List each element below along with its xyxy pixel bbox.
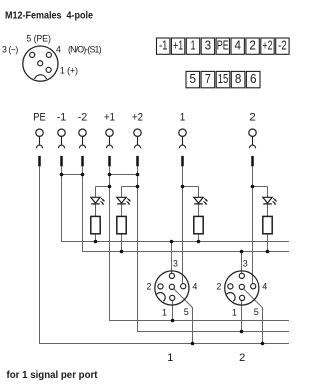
- wire terminal 2 to port2 pin 4: [252, 166, 254, 284]
- svg-text:6: 6: [250, 72, 257, 86]
- svg-text:(N/O)-(S1): (N/O)-(S1): [68, 45, 102, 55]
- svg-text:1: 1: [191, 39, 196, 53]
- svg-text:for 1 signal per port: for 1 signal per port: [7, 370, 99, 381]
- resistor R4: [263, 216, 272, 233]
- svg-text:4: 4: [262, 282, 267, 292]
- wire branch tap port2: [253, 186, 268, 188]
- resistor R3: [194, 216, 203, 233]
- svg-text:1: 1: [167, 352, 173, 364]
- face pin 3: [30, 52, 35, 57]
- wire -1 down + minus bus A: [62, 166, 290, 242]
- svg-text:5: 5: [254, 307, 259, 317]
- port 1 pin 4: [181, 284, 186, 289]
- svg-text:3: 3: [173, 259, 178, 269]
- svg-text:PE: PE: [217, 39, 229, 53]
- terminal -2 wire stub: [81, 156, 84, 166]
- port 2 keying notch: [227, 293, 236, 302]
- svg-text:4: 4: [192, 282, 197, 292]
- wire LED branch V1: [95, 187, 97, 242]
- svg-text:2: 2: [146, 282, 151, 292]
- terminal PE wire stub: [38, 156, 41, 166]
- LED V1: [91, 197, 104, 204]
- face pin 1: [46, 67, 51, 72]
- M12 female port 1 outline: [155, 271, 189, 305]
- LED V2: [117, 197, 130, 204]
- svg-text:M12-Females 4-pole: M12-Females 4-pole: [5, 10, 93, 21]
- svg-text:4: 4: [234, 39, 241, 53]
- svg-text:3: 3: [243, 259, 248, 269]
- wire port2 pin 3 to bus B: [241, 252, 243, 274]
- wire bridge +1 to +2: [110, 174, 138, 176]
- port 1 pin labels: [146, 259, 197, 318]
- wire port2 pin 1 to bus D: [241, 300, 243, 331]
- svg-text:2: 2: [249, 112, 256, 124]
- terminal 1 wire stub: [181, 156, 184, 166]
- svg-text:15: 15: [218, 72, 229, 86]
- face pin 5 (center): [38, 61, 43, 66]
- face keying notch: [35, 75, 47, 79]
- svg-text:1: 1: [232, 308, 237, 318]
- port 1 pin 1: [170, 295, 175, 300]
- resistor R2: [117, 216, 126, 233]
- LED V4: [263, 197, 276, 204]
- svg-text:5 (PE): 5 (PE): [26, 33, 51, 43]
- wire branch tap +2: [122, 186, 138, 188]
- svg-text:3 (−): 3 (−): [2, 44, 18, 54]
- svg-text:-1: -1: [57, 112, 67, 124]
- terminal +2 wire stub: [136, 156, 139, 166]
- terminal +1 wire stub: [108, 156, 111, 166]
- port 2 pin 4: [251, 284, 256, 289]
- svg-text:-1: -1: [159, 39, 168, 53]
- port 2 pin labels: [216, 259, 267, 318]
- svg-text:3: 3: [205, 39, 212, 53]
- svg-text:4: 4: [56, 45, 61, 55]
- wire port1 pin 1 to bus C: [172, 300, 174, 320]
- wire port2 pin 5 to PE bus: [244, 289, 263, 344]
- svg-text:-2: -2: [278, 39, 287, 53]
- svg-text:1: 1: [180, 112, 186, 124]
- svg-text:5: 5: [190, 72, 197, 86]
- wire +2 down + plus bus D: [138, 166, 290, 332]
- port 1 pin 3: [169, 273, 174, 278]
- terminal 1 clamp symbol: [179, 129, 186, 148]
- svg-text:2: 2: [249, 39, 256, 53]
- terminal +1 clamp symbol: [106, 129, 113, 148]
- wire terminal 1 to port1 pin 4: [182, 166, 184, 284]
- port 1 keying notch: [157, 293, 166, 302]
- svg-text:7: 7: [205, 72, 211, 86]
- svg-text:+2: +2: [132, 112, 143, 124]
- svg-text:1: 1: [162, 308, 167, 318]
- svg-text:8: 8: [235, 72, 242, 86]
- wire +1 down + plus bus C: [110, 166, 290, 321]
- wire -2 down + minus bus B: [83, 166, 290, 252]
- wire bridge -1 to -2: [62, 174, 83, 176]
- port 2 pin 2: [228, 284, 233, 289]
- wire LED branch V3: [198, 187, 200, 242]
- svg-text:+2: +2: [263, 39, 273, 53]
- port 1 pin 5: [169, 284, 174, 289]
- port 2 pin 3: [239, 273, 244, 278]
- terminal +2 clamp symbol: [134, 129, 141, 148]
- terminal 2 clamp symbol: [249, 129, 256, 148]
- face pin 4: [46, 52, 51, 57]
- port 2 pin 5: [239, 284, 244, 289]
- svg-text:-2: -2: [78, 112, 88, 124]
- terminal -1 wire stub: [60, 156, 63, 166]
- wire port1 pin 5 to PE bus: [174, 289, 193, 344]
- wire PE down + PE bus: [40, 166, 290, 344]
- svg-text:+1: +1: [173, 39, 183, 53]
- resistor R1: [91, 216, 100, 233]
- terminal marking box row 2: [186, 71, 260, 87]
- port 1 pin 2: [158, 284, 163, 289]
- terminal 2 wire stub: [251, 156, 254, 166]
- svg-text:1 (+): 1 (+): [60, 66, 78, 76]
- port 2 pin 1: [240, 295, 245, 300]
- wire LED branch V4: [267, 187, 269, 252]
- terminal PE clamp symbol: [36, 129, 43, 148]
- terminal -1 clamp symbol: [58, 129, 65, 148]
- wire port1 pin 3 to bus A: [171, 242, 173, 274]
- svg-text:2: 2: [216, 282, 221, 292]
- svg-text:+1: +1: [104, 112, 115, 124]
- M12 female port 2 outline: [225, 271, 259, 305]
- wire LED branch V2: [121, 187, 123, 252]
- LED V3: [194, 197, 207, 204]
- wire branch tap +1: [96, 186, 110, 188]
- wire branch tap port1: [183, 186, 199, 188]
- terminal -2 clamp symbol: [79, 129, 86, 148]
- svg-text:PE: PE: [33, 112, 46, 124]
- svg-text:2: 2: [239, 352, 245, 364]
- terminal marking box row 1: [157, 38, 290, 54]
- svg-text:5: 5: [184, 307, 189, 317]
- M12 female face view (pin legend): [23, 46, 58, 81]
